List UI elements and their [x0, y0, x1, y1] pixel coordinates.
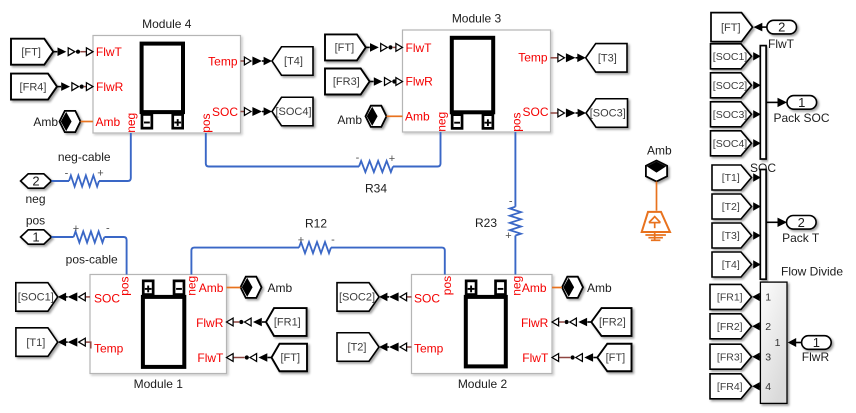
svg-text:Amb: Amb	[96, 115, 121, 129]
wire Module 4 Temp port to [T4]	[241, 60, 245, 62]
Goto tag [T3]	[586, 44, 627, 73]
wire port 2 FlwT to [FT]	[761, 26, 767, 28]
svg-text:[T3]: [T3]	[722, 230, 740, 242]
thermal wire Amb node to temperature reference	[656, 182, 658, 211]
svg-text:R12: R12	[305, 217, 327, 231]
svg-text:Temp: Temp	[518, 51, 548, 65]
wire Module 3 Temp port to [T3]	[551, 57, 558, 59]
svg-text:Module 4: Module 4	[142, 17, 192, 31]
wire port 1 FlwR to demux	[795, 342, 802, 344]
svg-text:1: 1	[775, 337, 781, 349]
svg-text:[FR3]: [FR3]	[717, 351, 743, 363]
mux T (vertical bar)	[760, 170, 766, 280]
resistor neg-cable	[69, 175, 99, 186]
svg-text:SOC: SOC	[212, 105, 238, 119]
svg-text:2: 2	[798, 215, 805, 230]
svg-text:neg: neg	[509, 276, 523, 296]
output port 2 Pack T	[787, 215, 817, 230]
svg-text:FlwT: FlwT	[406, 41, 433, 55]
svg-text:[SOC3]: [SOC3]	[713, 109, 748, 121]
svg-text:+: +	[389, 153, 395, 165]
svg-text:[SOC4]: [SOC4]	[713, 138, 748, 150]
svg-text:[SOC2]: [SOC2]	[339, 292, 375, 304]
svg-text:Temp: Temp	[208, 54, 238, 68]
svg-text:neg: neg	[185, 276, 199, 296]
svg-text:[T3]: [T3]	[598, 53, 617, 65]
svg-text:[SOC3]: [SOC3]	[590, 108, 626, 120]
wire Module 1 Temp port to [T1]	[86, 342, 91, 348]
wire [SOC4] to SOC mux	[753, 139, 761, 147]
wire Module 4 SOC port to [SOC4]	[241, 111, 245, 113]
Goto tag [FR2]	[710, 314, 752, 339]
From tag [T3]	[712, 223, 752, 248]
svg-text:Flow Divide: Flow Divide	[781, 265, 843, 279]
svg-text:[FR2]: [FR2]	[599, 317, 626, 329]
svg-text:2: 2	[765, 321, 771, 333]
svg-text:Amb: Amb	[587, 281, 612, 295]
svg-text:[FT]: [FT]	[335, 42, 355, 54]
svg-text:neg: neg	[25, 192, 45, 206]
svg-text:+: +	[73, 223, 79, 235]
ambient connection node hexagon at Module 1	[241, 277, 262, 298]
mux SOC (vertical bar)	[760, 46, 766, 159]
ambient node hexagon (center)	[646, 161, 667, 182]
svg-text:pos: pos	[118, 276, 132, 295]
svg-text:pos: pos	[26, 214, 45, 228]
wire T mux to Pack T port	[766, 221, 778, 223]
input port 1 FlwR	[802, 335, 832, 350]
resistor pos-cable	[74, 231, 105, 242]
ambient temperature source / thermal reference block	[642, 212, 670, 232]
svg-text:Amb: Amb	[522, 281, 547, 295]
svg-text:1: 1	[32, 230, 39, 245]
ambient connection node hexagon at Module 4	[60, 111, 81, 132]
battery icon inside Module 1 (rotated)	[143, 281, 184, 367]
wire demux output 4 to [FR4]	[752, 382, 760, 390]
svg-text:neg-cable: neg-cable	[58, 150, 111, 164]
From tag [FT] feeding Module 1 FlwT	[272, 344, 308, 372]
svg-text:[FR2]: [FR2]	[717, 321, 743, 333]
svg-text:[T4]: [T4]	[722, 259, 740, 271]
svg-text:-: -	[509, 196, 513, 208]
wire [FT] to Module 2 FlwT port	[593, 357, 597, 359]
svg-text:[FR1]: [FR1]	[717, 291, 743, 303]
svg-text:-: -	[65, 168, 69, 180]
svg-text:[FT]: [FT]	[21, 46, 41, 58]
From tag [T4]	[712, 252, 752, 277]
input port 2 neg	[21, 174, 52, 189]
From tag [FR2] feeding Module 2 FlwR	[591, 308, 631, 336]
svg-text:[T1]: [T1]	[26, 337, 45, 349]
wire [FR4] to Module 4 FlwR port	[57, 86, 61, 88]
Goto tag [T2]	[337, 333, 379, 362]
wire pos-cable to Module 1 pos port	[104, 237, 126, 275]
From tag [SOC2]	[711, 73, 752, 98]
resistor R23	[510, 207, 521, 236]
svg-text:[T1]: [T1]	[722, 172, 740, 184]
wire [FR1] to Module 1 FlwR port	[262, 321, 266, 323]
svg-text:[T2]: [T2]	[348, 342, 367, 354]
wire R23 to Module 2 neg port	[514, 236, 516, 275]
battery icon inside Module 3	[452, 38, 493, 129]
wire Module 4 pos port down to R34	[206, 133, 359, 167]
resistor R34	[359, 161, 393, 172]
svg-text:SOC: SOC	[94, 292, 120, 306]
svg-text:Module 3: Module 3	[452, 11, 502, 25]
svg-text:Temp: Temp	[94, 341, 124, 355]
svg-text:[SOC2]: [SOC2]	[713, 80, 748, 92]
From tag [FR3] feeding Module 3 FlwR	[325, 69, 370, 95]
svg-text:4: 4	[765, 381, 771, 393]
wire Module 2 Temp port to [T2]	[407, 346, 412, 348]
wire [SOC3] to SOC mux	[753, 110, 761, 118]
From tag [SOC4]	[711, 131, 752, 156]
svg-text:R34: R34	[365, 182, 387, 196]
svg-text:2: 2	[778, 20, 785, 35]
wire port 1 to pos-cable resistor	[51, 236, 73, 238]
svg-text:R23: R23	[475, 216, 497, 230]
svg-text:FlwR: FlwR	[521, 316, 549, 330]
wire R12 to Module 2 pos port	[331, 248, 445, 275]
svg-text:Temp: Temp	[414, 341, 444, 355]
wire [SOC1] to SOC mux	[753, 52, 761, 60]
svg-text:Pack SOC: Pack SOC	[774, 111, 830, 125]
thermal wire Module 1 Amb port to Amb node	[227, 287, 241, 289]
svg-text:Amb: Amb	[33, 115, 58, 129]
From tag [SOC3]	[711, 102, 752, 127]
wire R34 to Module 3 neg port	[393, 132, 441, 167]
wire [FT] to Module 4 FlwT port	[53, 51, 57, 53]
svg-text:-: -	[356, 152, 360, 164]
wire [FR3] to Module 3 FlwR port	[370, 81, 374, 83]
svg-text:+: +	[298, 234, 304, 246]
wire SOC mux to Pack SOC port	[766, 101, 778, 103]
wire demux output 1 to [FR1]	[752, 293, 760, 301]
wire Module 3 pos port down to R23	[514, 132, 516, 207]
svg-text:Amb: Amb	[268, 281, 293, 295]
svg-text:FlwR: FlwR	[406, 74, 434, 88]
wire Module 2 SOC port to [SOC2]	[407, 296, 412, 298]
subsystem block Module 1	[90, 275, 227, 374]
subsystem block Module 2	[412, 275, 553, 374]
thermal wire Amb node to Module 3 Amb port	[387, 115, 403, 117]
svg-text:[SOC4]: [SOC4]	[275, 106, 311, 118]
svg-text:pos: pos	[509, 112, 523, 131]
svg-text:[FT]: [FT]	[280, 352, 300, 364]
ambient connection node hexagon at Module 3	[366, 106, 387, 127]
ambient connection node hexagon at Module 2	[562, 277, 583, 298]
battery icon inside Module 2 (rotated)	[466, 281, 506, 367]
wire demux output 2 to [FR2]	[752, 322, 760, 330]
Goto tag [FR3]	[710, 344, 752, 369]
resistor R12	[299, 242, 331, 253]
wire [T2] to T mux	[753, 202, 761, 210]
svg-text:[T2]: [T2]	[722, 201, 740, 213]
svg-text:+: +	[505, 230, 511, 242]
Goto tag [T4]	[272, 47, 313, 76]
svg-text:-: -	[331, 234, 335, 246]
input port 2 FlwT	[767, 20, 797, 35]
svg-text:FlwT: FlwT	[522, 351, 549, 365]
wire Module 1 SOC port to [SOC1]	[86, 296, 90, 298]
svg-text:Amb: Amb	[405, 109, 430, 123]
wire Module 3 SOC port to [SOC3]	[551, 112, 558, 114]
From tag [FR4] feeding Module 4 FlwR	[11, 74, 57, 100]
svg-text:Module 1: Module 1	[134, 377, 184, 391]
From tag [FR1] feeding Module 1 FlwR	[266, 308, 307, 336]
Goto tag [FR1]	[710, 284, 752, 309]
svg-text:FlwT: FlwT	[197, 351, 224, 365]
svg-text:pos: pos	[440, 276, 454, 295]
output port 1 Pack SOC	[787, 95, 817, 110]
svg-text:[FR4]: [FR4]	[717, 381, 743, 393]
svg-text:[FT]: [FT]	[606, 352, 626, 364]
svg-text:[FR4]: [FR4]	[20, 81, 47, 93]
wire [T1] to T mux	[753, 173, 761, 181]
svg-text:FlwR: FlwR	[802, 350, 830, 364]
Goto tag [FR4]	[710, 374, 752, 399]
svg-text:[FR1]: [FR1]	[274, 317, 301, 329]
svg-text:Amb: Amb	[199, 281, 224, 295]
input port 1 pos	[21, 230, 52, 245]
svg-text:FlwT: FlwT	[96, 45, 123, 59]
svg-text:1: 1	[813, 335, 820, 350]
Goto tag [SOC3]	[586, 99, 628, 128]
svg-text:1: 1	[765, 292, 771, 304]
svg-text:[FR3]: [FR3]	[333, 76, 360, 88]
wire [SOC2] to SOC mux	[753, 81, 761, 89]
svg-text:2: 2	[32, 174, 39, 189]
svg-text:pos-cable: pos-cable	[66, 253, 118, 267]
svg-text:Pack T: Pack T	[782, 231, 820, 245]
svg-text:[FT]: [FT]	[721, 22, 741, 34]
svg-text:+: +	[97, 168, 103, 180]
wire [T3] to T mux	[753, 231, 761, 239]
svg-text:FlwR: FlwR	[196, 316, 224, 330]
svg-text:FlwR: FlwR	[96, 80, 124, 94]
From tag [FT] feeding Module 3 FlwT	[325, 34, 366, 60]
battery icon inside Module 4	[142, 44, 183, 129]
svg-text:SOC: SOC	[522, 105, 548, 119]
svg-text:Amb: Amb	[647, 144, 672, 158]
Goto tag [FT] (flow temperature)	[711, 13, 753, 42]
wire [FT] to Module 3 FlwT port	[366, 46, 370, 48]
From tag [SOC1]	[711, 44, 752, 69]
svg-text:neg: neg	[434, 112, 448, 132]
svg-text:pos: pos	[199, 113, 213, 132]
svg-text:neg: neg	[124, 113, 138, 133]
From tag [T1]	[712, 165, 752, 190]
From tag [T2]	[712, 194, 752, 219]
Goto tag [SOC4]	[272, 97, 313, 126]
wire [FR2] to Module 2 FlwR port	[587, 321, 591, 323]
svg-text:1: 1	[798, 95, 805, 110]
thermal wire Module 2 Amb port to Amb node	[552, 287, 562, 289]
wire [FT] to Module 1 FlwT port	[268, 357, 272, 359]
Goto tag [SOC1]	[16, 283, 58, 312]
svg-text:SOC: SOC	[414, 292, 440, 306]
svg-text:FlwT: FlwT	[768, 37, 795, 51]
wire neg-cable to Module 4 neg port	[99, 133, 131, 181]
demux block Flow Divide	[760, 282, 787, 403]
svg-text:[T4]: [T4]	[284, 56, 303, 68]
svg-text:3: 3	[765, 352, 771, 364]
subsystem block Module 4	[93, 36, 241, 134]
wire port 2 to neg-cable resistor	[51, 180, 69, 182]
From tag [FT] feeding Module 2 FlwT	[597, 344, 631, 372]
svg-text:-: -	[106, 223, 110, 235]
subsystem block Module 3	[403, 30, 551, 132]
wire Module 1 neg port up to R12	[191, 248, 299, 275]
wire [T4] to T mux	[753, 260, 761, 268]
svg-text:Module 2: Module 2	[458, 377, 508, 391]
Goto tag [T1]	[16, 328, 58, 357]
Goto tag [SOC2]	[337, 283, 379, 312]
From tag [FT] feeding Module 4 FlwT	[11, 39, 53, 65]
svg-text:[SOC1]: [SOC1]	[18, 292, 54, 304]
wire demux output 3 to [FR3]	[752, 353, 760, 361]
svg-text:Amb: Amb	[337, 113, 362, 127]
svg-text:[SOC1]: [SOC1]	[713, 51, 748, 63]
thermal wire Amb node to Module 4 Amb port	[81, 121, 94, 123]
